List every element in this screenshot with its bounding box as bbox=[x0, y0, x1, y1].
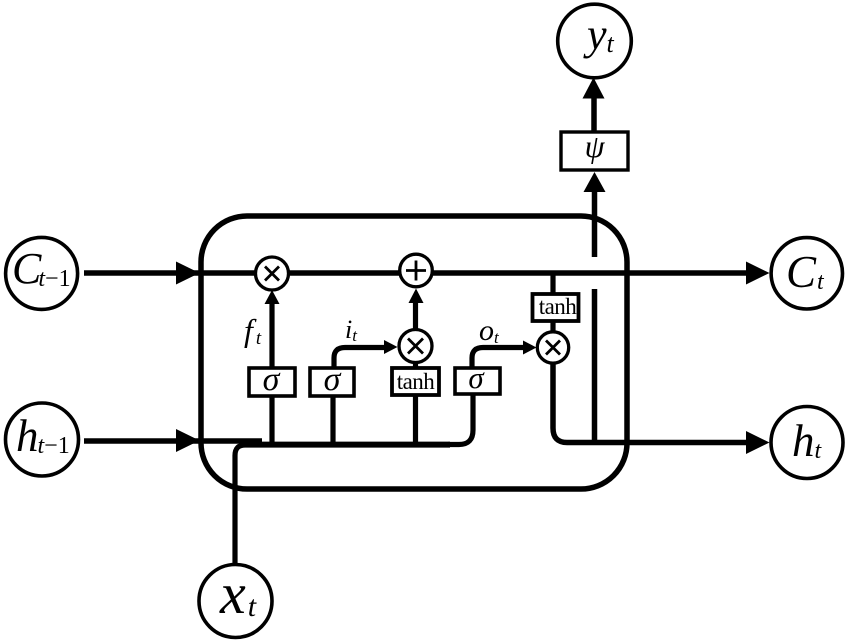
svg-text:ψ: ψ bbox=[585, 128, 606, 164]
svg-text:tanh: tanh bbox=[397, 369, 436, 394]
svg-text:tanh: tanh bbox=[539, 294, 578, 319]
svg-text:σ: σ bbox=[324, 361, 342, 398]
svg-text:σ: σ bbox=[468, 360, 485, 395]
svg-text:σ: σ bbox=[263, 361, 281, 398]
